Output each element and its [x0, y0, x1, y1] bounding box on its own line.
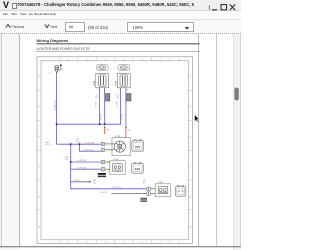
svg-text:A3: A3 [117, 96, 119, 99]
relay U2 connector ticks [117, 95, 119, 100]
svg-text:3: 3 [86, 59, 88, 61]
svg-text:0.8 BK: 0.8 BK [74, 180, 80, 182]
node: U1 pin2 junction [99, 123, 101, 125]
svg-text:0.8 PK 253: 0.8 PK 253 [77, 167, 86, 169]
svg-text:F: F [190, 76, 192, 78]
svg-text:F1-B: F1-B [76, 141, 81, 143]
P126 lighter element circle [114, 141, 125, 152]
node: junction on H1 at x=79.4 [78, 143, 80, 145]
svg-text:P147: P147 [115, 80, 117, 86]
svg-text:2: 2 [51, 73, 52, 75]
svg-text:A: A [190, 226, 192, 229]
splice block hatched [140, 198, 147, 202]
wire: main blue trunk from connector S1 down [56, 76, 58, 144]
wire: drop to H5 spur with arrow terminal [71, 169, 90, 182]
green lead P126 pin 2 [105, 149, 115, 151]
wire: drop to H4 P134 pin 2 [71, 162, 102, 169]
svg-text:12V: 12V [135, 145, 140, 149]
svg-text:4: 4 [48, 73, 49, 75]
H5 destination label [93, 179, 96, 184]
svg-text:Wiring Diagrams: Wiring Diagrams [37, 38, 70, 43]
wire: red feed stub to P126 pin B with arrow [125, 128, 127, 138]
svg-text:201: 201 [93, 182, 96, 184]
P126 12V outlet icon [132, 140, 144, 152]
schematic frame outer border [37, 57, 192, 244]
toolbar [0, 19, 241, 35]
window bottom edge [0, 246, 241, 248]
green lead P126 pin 1 [105, 143, 115, 145]
svg-text:GD 105: GD 105 [101, 192, 107, 194]
svg-text:0.8 PK 250: 0.8 PK 250 [85, 142, 94, 144]
P126 connector pair pin 2 [101, 148, 104, 151]
ground bar block lower [98, 176, 106, 178]
node: junction on H1 at x=70.7 [70, 143, 72, 145]
svg-text:7: 7 [160, 59, 162, 61]
svg-text:F: F [38, 76, 40, 78]
frame tick marks [37, 57, 192, 244]
wire: feed branch H1 to P126 pin 1 [57, 143, 102, 145]
svg-text:4: 4 [105, 59, 107, 61]
wire: relay U1 pin 2 drop [99, 94, 101, 125]
junction callout C39 [65, 157, 70, 161]
green lead P134 pin 2 [105, 168, 110, 170]
relay U1 pin numbers [97, 90, 107, 92]
svg-text:5: 5 [123, 59, 125, 61]
svg-text:C9: C9 [117, 95, 119, 97]
svg-text:0.8 PK 251: 0.8 PK 251 [84, 149, 93, 151]
relay U2 pin stubs [120, 88, 122, 94]
svg-text:D: D [190, 136, 192, 138]
svg-text:2: 2 [97, 90, 98, 92]
svg-text:6: 6 [142, 59, 144, 61]
wire: relay U2 pin 4 drop [125, 94, 127, 127]
svg-text:B: B [38, 197, 40, 199]
svg-text:0.8 OG: 0.8 OG [116, 101, 118, 107]
red stub labels [106, 130, 130, 132]
P134 connector pair pin 1 [101, 160, 104, 163]
relay U2 box [117, 74, 130, 88]
svg-text:4: 4 [106, 90, 107, 92]
svg-text:A2: A2 [95, 96, 97, 99]
svg-text:LIGHTER AND POWER OUTLETS: LIGHTER AND POWER OUTLETS [37, 47, 91, 51]
menu bar [0, 11, 241, 19]
P134 connector pair pin 2 [101, 168, 104, 171]
schematic frame inner border [41, 61, 188, 240]
P132 connector pair lead 2 [147, 192, 150, 195]
svg-text:0.8 OG: 0.8 OG [95, 101, 97, 107]
svg-text:8: 8 [178, 59, 180, 61]
H7 source label [101, 192, 107, 194]
page right edge [198, 34, 200, 247]
svg-text:2: 2 [68, 59, 70, 61]
wire: drop to P134 level [71, 144, 102, 162]
relay U1 icon box [96, 65, 108, 71]
P126 lighter body box [112, 138, 130, 156]
frame grid letters left/right [38, 76, 191, 229]
svg-text:A: A [38, 226, 40, 229]
wire: relay U2 pin 2 drop [120, 94, 122, 125]
node: U1 pin4 junction [104, 123, 106, 125]
relay U2 icon box [118, 65, 130, 71]
svg-text:116: 116 [127, 130, 130, 132]
svg-text:B: B [190, 197, 192, 199]
feed source label [46, 141, 50, 146]
window right edge [240, 34, 242, 247]
wire: red feed stub to P126 pin A with arrow [104, 128, 106, 134]
svg-text:E: E [190, 106, 192, 108]
svg-text:12V: 12V [135, 167, 140, 171]
wire: drop to H2 [79, 144, 101, 151]
wire: P132 second lead H7 [112, 193, 147, 195]
node: junction at P134 branch [70, 161, 72, 163]
S1 flag marker [60, 64, 63, 69]
svg-text:0.8 OG: 0.8 OG [122, 114, 124, 120]
svg-text:0.8 OG: 0.8 OG [101, 114, 103, 120]
relay U1 pin stubs [99, 88, 101, 94]
svg-text:4: 4 [127, 90, 128, 92]
P132 outlet body box [155, 184, 171, 197]
relay U1 connector ticks [95, 95, 97, 100]
svg-text:P148: P148 [94, 80, 96, 86]
svg-text:0.8 RD 114: 0.8 RD 114 [55, 101, 57, 110]
svg-text:C: C [190, 166, 192, 168]
svg-text:C: C [38, 166, 40, 168]
vertical scrollbar thumb [234, 88, 238, 101]
mouse cursor [195, 115, 199, 122]
S1 pin labels [48, 71, 61, 75]
frame grid numbers top [49, 59, 180, 244]
svg-text:D: D [38, 136, 40, 138]
svg-text:1: 1 [49, 59, 51, 61]
P134 12V outlet icon [132, 162, 144, 173]
connector S1 top-left [55, 65, 59, 76]
P134 outlet body box [110, 161, 125, 174]
svg-text:W: W [59, 71, 61, 73]
P132 outlet symbol [158, 187, 168, 194]
svg-text:2: 2 [118, 90, 119, 92]
svg-text:115: 115 [106, 130, 109, 132]
vertical scrollbar track [233, 34, 241, 250]
P126 connector pair pin 1 [101, 142, 104, 145]
left sidebar strip [0, 34, 19, 250]
relay U2 pin numbers [118, 90, 128, 92]
relay U2 connector housing [127, 94, 131, 102]
wire: relay U1 pin 4 drop [104, 94, 106, 125]
svg-text:0.8 PK 252: 0.8 PK 252 [77, 160, 86, 162]
relay U1 box [96, 74, 109, 88]
green lead P134 pin 1 [105, 161, 110, 163]
P134 outlet symbol [113, 164, 122, 171]
ground bar block upper [98, 173, 106, 175]
svg-text:B4: B4 [143, 182, 145, 184]
svg-text:E: E [38, 106, 40, 108]
relay U1 connector housing [106, 94, 110, 102]
panel separator line [216, 34, 218, 247]
wire: horizontal branch to relay units at y=124 [57, 123, 121, 125]
P132 battery icon [175, 185, 185, 196]
wire labels on unit drops [95, 101, 123, 120]
P132 callouts [143, 180, 145, 184]
node: trunk/branch junction [56, 123, 58, 125]
svg-text:C9: C9 [95, 95, 97, 97]
svg-text:0.8 GY 185: 0.8 GY 185 [112, 187, 121, 189]
P132 connector pair lead 1 [147, 187, 150, 190]
svg-text:F1-C: F1-C [65, 159, 70, 161]
green lead P132 [150, 188, 155, 190]
wire: drop to bottom run H6 feeding P132 [71, 182, 147, 189]
junction callout C38 [76, 139, 81, 143]
svg-text:F-10: F-10 [46, 144, 50, 146]
window title bar [0, 0, 241, 11]
